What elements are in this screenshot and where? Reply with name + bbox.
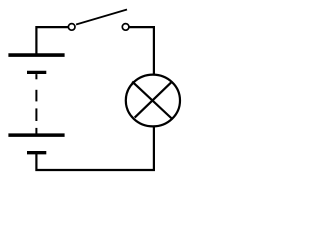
lamp L1 outline (126, 75, 180, 127)
lamp L1 cross line bottom-left to top-right (135, 82, 172, 118)
battery cell 2 negative plate (short) (27, 151, 46, 154)
battery cell 1 negative plate (short) (27, 71, 46, 74)
wire from lamp bottom around to battery negative terminal (36, 127, 153, 170)
switch S1 right terminal (open circle) (122, 24, 129, 31)
battery cell 2 positive plate (long) (8, 133, 64, 137)
wire from switch right terminal to lamp top (130, 27, 154, 74)
dashed link between cells, segment 2 (35, 90, 37, 102)
switch S1 blade (open) (76, 10, 127, 25)
dashed link between cells, segment 4 (35, 128, 37, 134)
switch S1 left terminal (open circle) (68, 24, 75, 31)
lamp L1 cross line top-left to bottom-right (132, 82, 172, 119)
dashed link between cells, segment 3 (35, 108, 37, 121)
battery cell 1 positive plate (long) (8, 53, 64, 57)
wire from battery positive terminal up and right to switch left terminal (36, 27, 68, 53)
dashed link between cells, segment 1 (35, 74, 37, 79)
